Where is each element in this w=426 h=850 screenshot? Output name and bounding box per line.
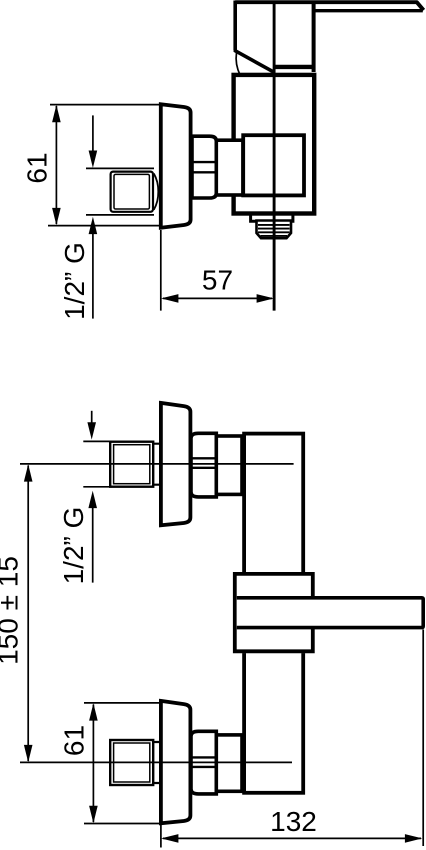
mixer body outline (side view) xyxy=(234,75,315,214)
handle pivot arc (side view) xyxy=(236,53,240,76)
bottom inlet adapter (front view) xyxy=(216,735,242,791)
svg-text:57: 57 xyxy=(202,265,233,296)
dimension 57 (side view) xyxy=(161,230,274,311)
svg-text:61: 61 xyxy=(21,152,52,183)
1/2 G label arrow (front view) xyxy=(58,491,97,585)
top wall escutcheon (front view) xyxy=(161,403,191,525)
bottom wall escutcheon (front view) xyxy=(161,701,191,823)
top wall pipe (front view) xyxy=(83,441,161,486)
union nut (side view) xyxy=(192,136,216,198)
handle block fill (front view) xyxy=(233,572,315,653)
svg-text:132: 132 xyxy=(270,806,317,837)
mixer body (front view) xyxy=(244,434,303,793)
svg-text:61: 61 xyxy=(58,725,89,756)
threaded outlet nipple (side view) xyxy=(257,221,292,239)
wall pipe outline (side view) xyxy=(86,168,154,215)
handle cap and lever (side view) xyxy=(234,1,423,73)
svg-text:1/2” G: 1/2” G xyxy=(59,242,90,320)
dimension 132 (front view) xyxy=(161,630,423,848)
top union nut (front view) xyxy=(191,433,216,497)
bottom connection centerline (front view) xyxy=(20,761,292,763)
dimension 150 +/- 15 (front view) xyxy=(0,464,33,762)
svg-text:150 ± 15: 150 ± 15 xyxy=(0,556,24,665)
bottom wall pipe (front view) xyxy=(110,740,161,785)
handle block outline (front view) xyxy=(235,574,313,651)
top connection centerline (front view) xyxy=(20,463,294,465)
body front face square (side view) xyxy=(243,135,304,195)
bottom union nut (front view) xyxy=(191,731,216,794)
dimension 61 (side view) xyxy=(21,105,160,226)
pipe nose arc (side view) xyxy=(154,174,159,210)
wall escutcheon (side view) xyxy=(161,104,191,227)
top inlet adapter (front view) xyxy=(216,436,242,494)
body centerline (side view) xyxy=(273,2,276,310)
svg-text:1/2” G: 1/2” G xyxy=(58,507,89,585)
outlet flange (side view) xyxy=(251,214,293,221)
lever (front view) xyxy=(237,598,423,628)
wall pipe thread box (side view) xyxy=(111,172,153,212)
dimension 61 (front view) xyxy=(58,703,161,824)
inlet adapter (side view) xyxy=(216,140,243,195)
pipe thread size arrows 1/2 G (side view) xyxy=(59,115,97,320)
top pipe down arrow (front view) xyxy=(87,411,96,440)
